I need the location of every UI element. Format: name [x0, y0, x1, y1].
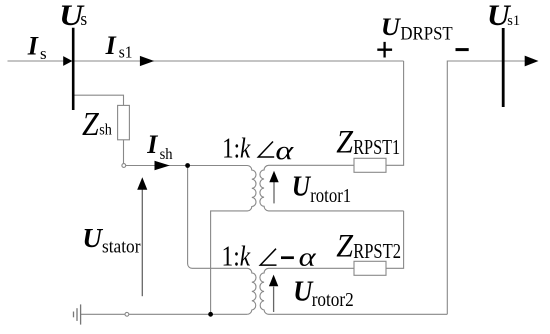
- ground: [74, 304, 81, 324]
- wire: from Ish node down to T2 primary top: [188, 166, 256, 315]
- angle symbol 1: [258, 142, 274, 158]
- wire: shunt tap from bar to Zsh: [74, 95, 123, 105]
- svg-text:U: U: [293, 277, 314, 308]
- svg-text:Z: Z: [336, 228, 353, 264]
- svg-text:s: s: [40, 44, 47, 63]
- arrow Is1: [140, 56, 154, 66]
- svg-text:I: I: [105, 31, 117, 60]
- arrow Urotor2: [273, 287, 275, 312]
- arrow output: [525, 56, 539, 67]
- svg-text:U: U: [292, 172, 312, 203]
- resistor ZRPST2 body: [354, 261, 386, 275]
- svg-text:α: α: [275, 135, 294, 165]
- node: open circle under Zsh: [122, 164, 126, 168]
- resistor Zsh body: [118, 105, 130, 139]
- svg-text:RPST1: RPST1: [353, 135, 400, 159]
- angle symbol 2: [260, 249, 276, 265]
- svg-text:1:k: 1:k: [222, 134, 251, 165]
- arrow Is: [63, 56, 72, 66]
- wire: output right vertical and top-right run: [447, 61, 527, 314]
- svg-text:Z: Z: [82, 106, 100, 143]
- svg-text:rotor2: rotor2: [312, 290, 354, 311]
- junction dot at Ish node: [185, 163, 190, 168]
- wire: Zsh bottom lead: [123, 140, 125, 164]
- minus in formula 2: [281, 256, 294, 259]
- node: open circle on ground bus: [125, 312, 129, 316]
- svg-text:U: U: [381, 14, 402, 41]
- svg-text:stator: stator: [102, 237, 141, 258]
- wire: ground bus: [81, 313, 248, 315]
- arrow Ish: [155, 161, 170, 171]
- wire: main top bus: [8, 60, 404, 62]
- svg-text:α: α: [299, 242, 317, 272]
- svg-text:DRPST: DRPST: [400, 24, 452, 44]
- svg-text:1:k: 1:k: [222, 242, 252, 273]
- svg-text:s1: s1: [507, 13, 520, 29]
- plus sign: [377, 42, 392, 58]
- svg-text:s: s: [80, 9, 87, 30]
- bar: Us1 measurement bar: [502, 28, 505, 107]
- svg-text:U: U: [82, 222, 104, 253]
- svg-text:sh: sh: [99, 121, 112, 138]
- svg-text:Z: Z: [336, 124, 353, 160]
- svg-text:I: I: [146, 130, 158, 159]
- wire: loop2 right vertical + resistor2 right lead: [386, 211, 404, 268]
- svg-text:s1: s1: [119, 43, 133, 62]
- wire: loop1 right vertical + resistor1 right lead: [386, 61, 404, 165]
- svg-text:RPST2: RPST2: [353, 239, 401, 263]
- wire: Ish run + T1 primary winding + left-bottom return: [126, 166, 256, 315]
- resistor ZRPST1 body: [354, 158, 386, 172]
- svg-text:rotor1: rotor1: [310, 186, 351, 207]
- wire: resistor1 left lead + T1 secondary winding: [260, 165, 404, 211]
- svg-text:sh: sh: [160, 146, 173, 163]
- minus sign: [456, 48, 469, 51]
- junction dot on ground bus: [208, 312, 213, 317]
- svg-text:I: I: [27, 32, 39, 61]
- wire: resistor2 left lead + T2 secondary winding: [260, 268, 447, 314]
- arrow Urotor1: [273, 182, 275, 203]
- arrow Ustator: [141, 189, 143, 296]
- bar: Us measurement bar: [72, 28, 75, 110]
